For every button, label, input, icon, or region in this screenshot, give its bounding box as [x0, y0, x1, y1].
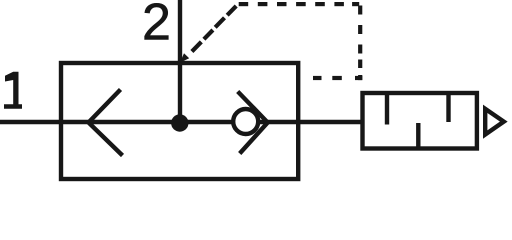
svg-text:2: 2 [142, 0, 171, 52]
